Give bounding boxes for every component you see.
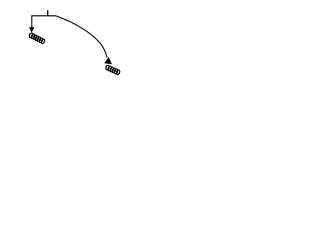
tick branch [47,10,49,16]
coil spring 2 [105,65,120,75]
arrowhead right [104,57,112,64]
wire leader line [32,16,107,58]
coil spring 1 [29,33,46,45]
arrowhead left [29,27,34,33]
